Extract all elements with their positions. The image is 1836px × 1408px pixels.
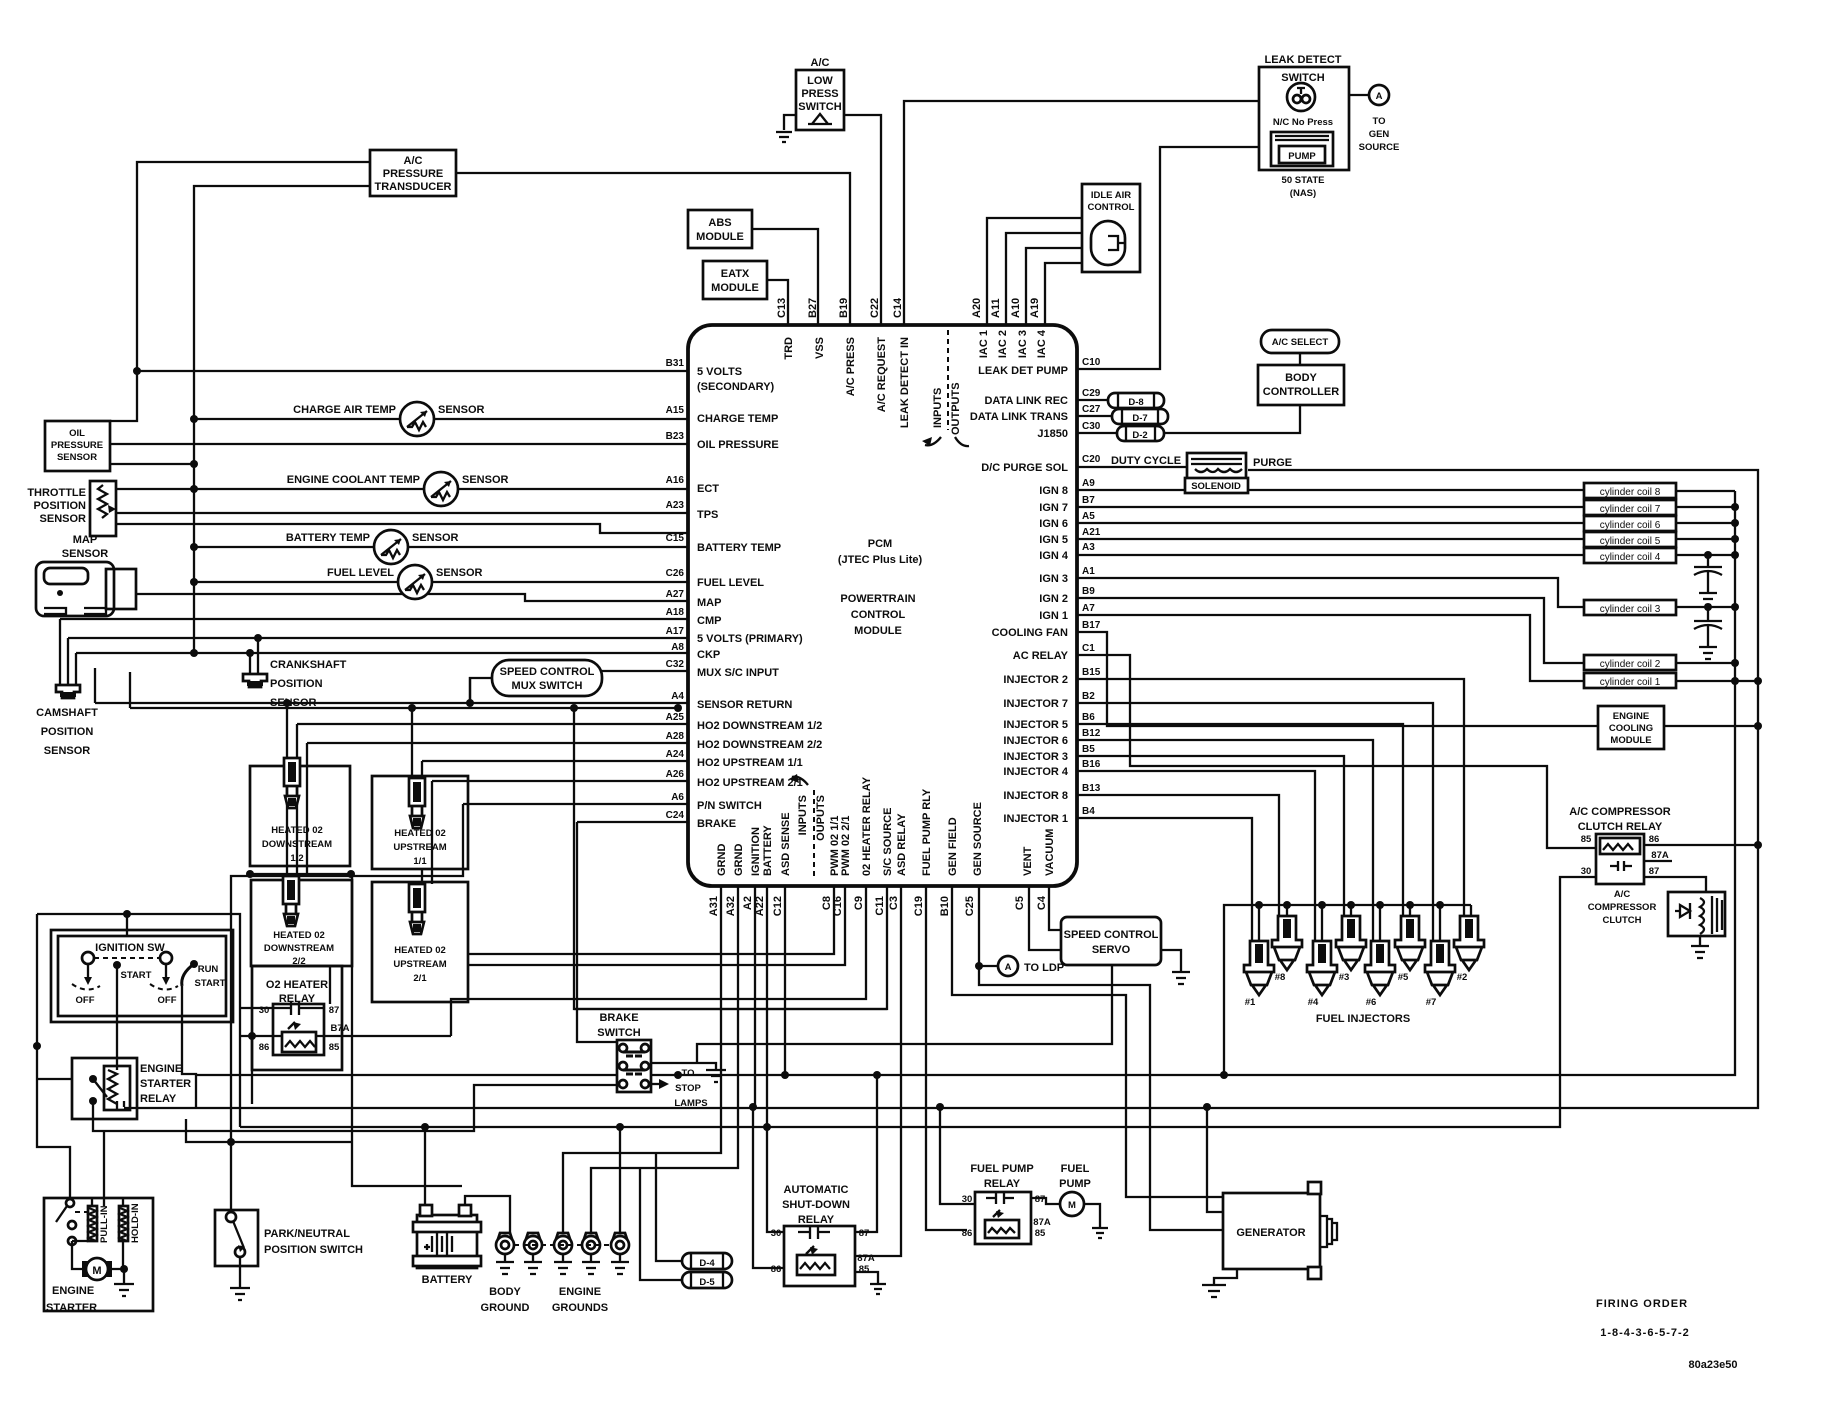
svg-text:FIRING ORDER: FIRING ORDER [1596, 1298, 1688, 1310]
svg-text:30: 30 [771, 1228, 782, 1239]
svg-text:PRESSURE: PRESSURE [51, 440, 103, 451]
svg-text:cylinder coil 5: cylinder coil 5 [1600, 536, 1661, 547]
svg-text:A31: A31 [708, 896, 720, 916]
svg-text:TRD: TRD [783, 337, 795, 360]
svg-text:ENGINE: ENGINE [559, 1286, 601, 1298]
svg-text:#4: #4 [1308, 997, 1319, 1008]
svg-text:A: A [1376, 91, 1383, 102]
svg-text:DATA LINK REC: DATA LINK REC [984, 395, 1068, 407]
svg-text:POWERTRAIN: POWERTRAIN [840, 593, 915, 605]
svg-text:87A: 87A [857, 1253, 875, 1264]
svg-text:CKP: CKP [697, 649, 720, 661]
svg-text:GEN FIELD: GEN FIELD [947, 817, 959, 876]
svg-text:SHUT-DOWN: SHUT-DOWN [782, 1199, 850, 1211]
svg-text:(SECONDARY): (SECONDARY) [697, 381, 775, 393]
svg-text:HEATED 02: HEATED 02 [271, 825, 323, 836]
svg-text:INJECTOR 2: INJECTOR 2 [1003, 674, 1068, 686]
svg-text:C5: C5 [1014, 896, 1026, 910]
svg-text:START: START [195, 978, 226, 989]
svg-text:02 HEATER RELAY: 02 HEATER RELAY [861, 776, 873, 876]
svg-text:cylinder coil 1: cylinder coil 1 [1600, 677, 1661, 688]
svg-text:C4: C4 [1036, 895, 1048, 910]
svg-text:1/2: 1/2 [290, 853, 303, 864]
svg-text:#7: #7 [1426, 997, 1437, 1008]
svg-text:85: 85 [329, 1042, 340, 1053]
svg-text:P/N SWITCH: P/N SWITCH [697, 800, 762, 812]
svg-text:LOW: LOW [807, 75, 833, 87]
svg-text:#5: #5 [1398, 972, 1409, 983]
svg-text:C25: C25 [964, 896, 976, 916]
svg-text:B23: B23 [666, 431, 685, 442]
svg-text:A/C: A/C [1614, 889, 1631, 900]
svg-text:80a23e50: 80a23e50 [1689, 1359, 1738, 1371]
svg-text:A19: A19 [1029, 298, 1041, 318]
svg-text:UPSTREAM: UPSTREAM [393, 842, 446, 853]
svg-text:A32: A32 [725, 896, 737, 916]
svg-text:CONTROL: CONTROL [851, 609, 906, 621]
svg-text:LEAK DETECT IN: LEAK DETECT IN [899, 337, 911, 428]
svg-text:A24: A24 [666, 749, 685, 760]
svg-text:PUMP: PUMP [1059, 1178, 1091, 1190]
svg-text:D-7: D-7 [1132, 413, 1147, 424]
svg-text:MUX SWITCH: MUX SWITCH [512, 680, 583, 692]
svg-text:BODY: BODY [1285, 372, 1317, 384]
svg-text:86: 86 [962, 1228, 973, 1239]
svg-text:#3: #3 [1339, 972, 1350, 983]
svg-text:IGNITION: IGNITION [750, 827, 762, 876]
svg-text:MAP: MAP [73, 534, 97, 546]
svg-text:CLUTCH: CLUTCH [1602, 915, 1641, 926]
svg-text:B7A: B7A [330, 1023, 349, 1034]
svg-text:HEATED 02: HEATED 02 [394, 945, 446, 956]
svg-text:C27: C27 [1082, 404, 1101, 415]
svg-text:cylinder coil 3: cylinder coil 3 [1600, 604, 1661, 615]
svg-text:ENGINE: ENGINE [140, 1063, 182, 1075]
svg-text:D-2: D-2 [1132, 430, 1147, 441]
svg-text:O2 HEATER: O2 HEATER [266, 979, 328, 991]
svg-text:IDLE AIR: IDLE AIR [1091, 190, 1131, 201]
svg-text:C3: C3 [888, 896, 900, 910]
svg-text:POSITION SWITCH: POSITION SWITCH [264, 1244, 363, 1256]
svg-text:SENSOR: SENSOR [462, 474, 509, 486]
svg-text:30: 30 [1581, 866, 1592, 877]
svg-text:TO: TO [1372, 116, 1385, 127]
svg-text:C9: C9 [853, 896, 865, 910]
svg-text:86: 86 [771, 1264, 782, 1275]
svg-text:INJECTOR 6: INJECTOR 6 [1003, 735, 1068, 747]
svg-text:C1: C1 [1082, 643, 1095, 654]
svg-text:FUEL LEVEL: FUEL LEVEL [697, 577, 764, 589]
svg-text:86: 86 [1649, 834, 1660, 845]
svg-text:SPEED CONTROL: SPEED CONTROL [1064, 929, 1159, 941]
svg-text:1/1: 1/1 [413, 856, 427, 867]
svg-text:INJECTOR 8: INJECTOR 8 [1003, 790, 1068, 802]
svg-text:B7: B7 [1082, 495, 1095, 506]
svg-text:GEN SOURCE: GEN SOURCE [972, 802, 984, 876]
svg-text:AC RELAY: AC RELAY [1013, 650, 1069, 662]
svg-text:LEAK DET PUMP: LEAK DET PUMP [978, 365, 1068, 377]
svg-text:IGN 5: IGN 5 [1039, 534, 1068, 546]
svg-text:UPSTREAM: UPSTREAM [393, 959, 446, 970]
svg-text:D-5: D-5 [699, 1277, 715, 1288]
svg-text:B5: B5 [1082, 744, 1095, 755]
svg-text:FUEL LEVEL: FUEL LEVEL [327, 567, 394, 579]
svg-text:N/C No Press: N/C No Press [1273, 117, 1333, 128]
svg-text:FUEL INJECTORS: FUEL INJECTORS [1316, 1013, 1410, 1025]
svg-text:cylinder coil 4: cylinder coil 4 [1600, 552, 1661, 563]
svg-text:PUMP: PUMP [1288, 151, 1316, 162]
svg-text:B10: B10 [939, 896, 951, 916]
svg-text:C22: C22 [869, 298, 881, 318]
svg-text:A27: A27 [666, 589, 685, 600]
svg-text:GEN: GEN [1369, 129, 1390, 140]
svg-text:PRESS: PRESS [801, 88, 838, 100]
svg-text:IAC 3: IAC 3 [1017, 330, 1029, 358]
svg-text:FUEL: FUEL [1061, 1163, 1090, 1175]
svg-text:86: 86 [259, 1042, 270, 1053]
svg-text:RELAY: RELAY [984, 1178, 1021, 1190]
svg-text:HO2 DOWNSTREAM 1/2: HO2 DOWNSTREAM 1/2 [697, 720, 822, 732]
svg-text:A16: A16 [666, 475, 685, 486]
svg-text:5 VOLTS (PRIMARY): 5 VOLTS (PRIMARY) [697, 633, 803, 645]
svg-text:C15: C15 [666, 533, 685, 544]
svg-text:cylinder coil 6: cylinder coil 6 [1600, 520, 1661, 531]
svg-text:SENSOR: SENSOR [62, 548, 109, 560]
svg-text:IGN 2: IGN 2 [1039, 593, 1068, 605]
svg-text:87A: 87A [1651, 850, 1669, 861]
svg-text:B31: B31 [666, 358, 685, 369]
svg-text:M: M [92, 1265, 101, 1277]
svg-text:J1850: J1850 [1037, 428, 1068, 440]
svg-text:BATTERY: BATTERY [422, 1274, 473, 1286]
svg-text:MODULE: MODULE [711, 282, 759, 294]
svg-text:CMP: CMP [697, 615, 721, 627]
svg-text:SENSOR: SENSOR [270, 697, 317, 709]
svg-text:C12: C12 [772, 896, 784, 916]
svg-text:HEATED 02: HEATED 02 [394, 828, 446, 839]
svg-text:A/C PRESS: A/C PRESS [845, 337, 857, 396]
svg-text:HEATED 02: HEATED 02 [273, 930, 325, 941]
svg-text:5 VOLTS: 5 VOLTS [697, 366, 742, 378]
svg-text:PURGE: PURGE [1253, 457, 1292, 469]
svg-text:MODULE: MODULE [1610, 735, 1651, 746]
svg-text:COOLING FAN: COOLING FAN [992, 627, 1068, 639]
svg-text:A5: A5 [1082, 511, 1095, 522]
svg-text:FUEL PUMP RLY: FUEL PUMP RLY [921, 788, 933, 876]
svg-text:ENGINE COOLANT TEMP: ENGINE COOLANT TEMP [287, 474, 420, 486]
svg-text:IAC 2: IAC 2 [997, 330, 1009, 358]
svg-text:LAMPS: LAMPS [674, 1098, 707, 1109]
svg-text:INJECTOR 5: INJECTOR 5 [1003, 719, 1068, 731]
svg-text:POSITION: POSITION [270, 678, 323, 690]
svg-text:S/C SOURCE: S/C SOURCE [882, 808, 894, 876]
svg-text:B15: B15 [1082, 667, 1101, 678]
svg-text:IAC 1: IAC 1 [978, 330, 990, 358]
svg-text:C11: C11 [874, 896, 886, 916]
svg-text:2/1: 2/1 [413, 973, 427, 984]
svg-text:IGN 3: IGN 3 [1039, 573, 1068, 585]
svg-text:DATA LINK TRANS: DATA LINK TRANS [970, 411, 1068, 423]
svg-text:87: 87 [1035, 1194, 1046, 1205]
svg-text:IGNITION SW: IGNITION SW [95, 942, 165, 954]
svg-text:#1: #1 [1245, 997, 1256, 1008]
svg-text:VACUUM: VACUUM [1044, 829, 1056, 876]
svg-text:START: START [121, 970, 152, 981]
svg-text:A21: A21 [1082, 527, 1101, 538]
svg-text:85: 85 [1581, 834, 1592, 845]
svg-text:GROUNDS: GROUNDS [552, 1302, 608, 1314]
svg-text:A/C SELECT: A/C SELECT [1272, 337, 1329, 348]
svg-text:B4: B4 [1082, 806, 1095, 817]
svg-text:D-4: D-4 [699, 1258, 715, 1269]
svg-text:RELAY: RELAY [798, 1214, 835, 1226]
svg-text:C30: C30 [1082, 421, 1101, 432]
svg-text:A4: A4 [671, 691, 684, 702]
svg-text:DOWNSTREAM: DOWNSTREAM [264, 943, 334, 954]
svg-text:AUTOMATIC: AUTOMATIC [784, 1184, 849, 1196]
svg-text:SWITCH: SWITCH [798, 101, 841, 113]
svg-text:A26: A26 [666, 769, 685, 780]
svg-text:INJECTOR 4: INJECTOR 4 [1003, 766, 1068, 778]
svg-text:cylinder coil 2: cylinder coil 2 [1600, 659, 1661, 670]
svg-text:ENGINE: ENGINE [1613, 711, 1649, 722]
svg-text:PRESSURE: PRESSURE [383, 168, 444, 180]
svg-text:C10: C10 [1082, 357, 1101, 368]
svg-text:ASD RELAY: ASD RELAY [896, 813, 908, 876]
svg-text:BRAKE: BRAKE [599, 1012, 638, 1024]
svg-text:C14: C14 [892, 297, 904, 318]
svg-text:DUTY CYCLE: DUTY CYCLE [1111, 455, 1181, 467]
svg-text:SENSOR: SENSOR [57, 452, 97, 463]
svg-text:BODY: BODY [489, 1286, 521, 1298]
svg-text:GENERATOR: GENERATOR [1236, 1227, 1305, 1239]
svg-text:POSITION: POSITION [41, 726, 94, 738]
svg-text:A20: A20 [971, 298, 983, 318]
svg-text:SENSOR: SENSOR [412, 532, 459, 544]
svg-text:IGN 8: IGN 8 [1039, 485, 1068, 497]
svg-text:A: A [1005, 962, 1012, 973]
svg-text:CRANKSHAFT: CRANKSHAFT [270, 659, 347, 671]
svg-text:B2: B2 [1082, 691, 1095, 702]
svg-text:CLUTCH RELAY: CLUTCH RELAY [1578, 821, 1663, 833]
svg-text:#8: #8 [1275, 972, 1286, 983]
svg-text:HO2 DOWNSTREAM 2/2: HO2 DOWNSTREAM 2/2 [697, 739, 822, 751]
svg-text:A8: A8 [671, 642, 684, 653]
svg-text:C24: C24 [666, 810, 685, 821]
svg-text:1-8-4-3-6-5-7-2: 1-8-4-3-6-5-7-2 [1600, 1327, 1690, 1339]
svg-text:BATTERY TEMP: BATTERY TEMP [697, 542, 781, 554]
svg-text:50 STATE: 50 STATE [1282, 175, 1325, 186]
svg-text:B16: B16 [1082, 759, 1101, 770]
svg-text:CHARGE AIR TEMP: CHARGE AIR TEMP [293, 404, 396, 416]
svg-text:ENGINE: ENGINE [52, 1285, 94, 1297]
svg-text:B13: B13 [1082, 783, 1101, 794]
svg-text:87: 87 [1649, 866, 1660, 877]
svg-text:IGN 1: IGN 1 [1039, 610, 1068, 622]
svg-text:VENT: VENT [1022, 846, 1034, 876]
svg-text:A/C REQUEST: A/C REQUEST [876, 337, 888, 412]
svg-text:PWM 02 2/1: PWM 02 2/1 [840, 815, 852, 876]
svg-text:VSS: VSS [814, 337, 826, 359]
svg-text:B19: B19 [838, 298, 850, 318]
svg-text:B9: B9 [1082, 586, 1095, 597]
svg-text:A28: A28 [666, 731, 685, 742]
svg-text:C19: C19 [913, 896, 925, 916]
svg-text:INPUTS: INPUTS [797, 795, 809, 835]
svg-text:INJECTOR 1: INJECTOR 1 [1003, 813, 1068, 825]
svg-text:THROTTLE: THROTTLE [27, 487, 86, 499]
svg-text:BATTERY TEMP: BATTERY TEMP [286, 532, 370, 544]
svg-text:30: 30 [962, 1194, 973, 1205]
svg-text:#6: #6 [1366, 997, 1377, 1008]
svg-text:HO2 UPSTREAM 2/1: HO2 UPSTREAM 2/1 [697, 777, 803, 789]
svg-text:CONTROL: CONTROL [1088, 202, 1135, 213]
svg-text:A25: A25 [666, 712, 685, 723]
svg-text:COOLING: COOLING [1609, 723, 1653, 734]
svg-text:A/C COMPRESSOR: A/C COMPRESSOR [1569, 806, 1671, 818]
svg-text:B17: B17 [1082, 620, 1101, 631]
svg-text:MODULE: MODULE [854, 625, 902, 637]
svg-text:SOURCE: SOURCE [1359, 142, 1400, 153]
svg-text:C26: C26 [666, 568, 685, 579]
svg-text:A17: A17 [666, 626, 685, 637]
svg-text:85: 85 [859, 1264, 870, 1275]
svg-text:SOLENOID: SOLENOID [1191, 481, 1241, 492]
svg-text:PARK/NEUTRAL: PARK/NEUTRAL [264, 1228, 350, 1240]
svg-text:OIL PRESSURE: OIL PRESSURE [697, 439, 779, 451]
svg-text:C29: C29 [1082, 388, 1101, 399]
svg-text:CHARGE TEMP: CHARGE TEMP [697, 413, 778, 425]
svg-text:OFF: OFF [158, 995, 177, 1006]
svg-text:GROUND: GROUND [481, 1302, 530, 1314]
svg-text:OIL: OIL [69, 428, 85, 439]
svg-text:SENSOR: SENSOR [44, 745, 91, 757]
svg-text:EATX: EATX [721, 268, 750, 280]
svg-text:A3: A3 [1082, 542, 1095, 553]
svg-text:RELAY: RELAY [140, 1093, 177, 1105]
svg-text:OUPUTS: OUPUTS [815, 795, 827, 841]
svg-text:STOP: STOP [675, 1083, 701, 1094]
svg-text:87A: 87A [1033, 1217, 1051, 1228]
svg-text:POSITION: POSITION [33, 500, 86, 512]
svg-text:#2: #2 [1457, 972, 1468, 983]
svg-text:TO: TO [681, 1068, 694, 1079]
svg-text:A/C: A/C [811, 57, 830, 69]
svg-text:LEAK DETECT: LEAK DETECT [1265, 54, 1342, 66]
svg-text:BRAKE: BRAKE [697, 818, 736, 830]
svg-text:STARTER: STARTER [140, 1078, 191, 1090]
svg-text:CAMSHAFT: CAMSHAFT [36, 707, 98, 719]
svg-text:IGN 6: IGN 6 [1039, 518, 1068, 530]
svg-text:TRANSDUCER: TRANSDUCER [375, 181, 452, 193]
svg-text:C13: C13 [776, 298, 788, 318]
svg-text:FUEL PUMP: FUEL PUMP [970, 1163, 1033, 1175]
svg-text:PULL-IN: PULL-IN [99, 1205, 110, 1243]
svg-text:OFF: OFF [76, 995, 95, 1006]
svg-text:CONTROLLER: CONTROLLER [1263, 386, 1339, 398]
svg-text:GRND: GRND [716, 844, 728, 876]
svg-text:A1: A1 [1082, 566, 1095, 577]
svg-text:COMPRESSOR: COMPRESSOR [1588, 902, 1657, 913]
svg-text:SENSOR RETURN: SENSOR RETURN [697, 699, 792, 711]
svg-text:SERVO: SERVO [1092, 944, 1131, 956]
svg-text:B6: B6 [1082, 712, 1095, 723]
svg-text:cylinder coil 7: cylinder coil 7 [1600, 504, 1661, 515]
svg-text:A15: A15 [666, 405, 685, 416]
svg-text:B12: B12 [1082, 728, 1101, 739]
svg-text:IGN 4: IGN 4 [1039, 550, 1069, 562]
svg-text:ABS: ABS [708, 217, 731, 229]
svg-text:A/C: A/C [404, 155, 423, 167]
svg-text:PCM: PCM [868, 538, 892, 550]
svg-text:cylinder coil 8: cylinder coil 8 [1600, 487, 1661, 498]
svg-text:87: 87 [859, 1228, 870, 1239]
svg-text:D/C PURGE SOL: D/C PURGE SOL [981, 462, 1068, 474]
svg-text:A23: A23 [666, 500, 685, 511]
svg-text:BATTERY: BATTERY [762, 825, 774, 876]
svg-text:MAP: MAP [697, 597, 721, 609]
svg-text:IAC 4: IAC 4 [1036, 329, 1048, 358]
svg-text:DOWNSTREAM: DOWNSTREAM [262, 839, 332, 850]
svg-text:STARTER: STARTER [46, 1302, 97, 1314]
svg-text:A10: A10 [1010, 298, 1022, 318]
svg-text:A18: A18 [666, 607, 685, 618]
svg-text:A9: A9 [1082, 478, 1095, 489]
svg-text:OUTPUTS: OUTPUTS [950, 382, 962, 435]
svg-text:SENSOR: SENSOR [436, 567, 483, 579]
svg-text:GRND: GRND [733, 844, 745, 876]
svg-text:TO LDP: TO LDP [1024, 962, 1064, 974]
svg-text:C32: C32 [666, 659, 685, 670]
svg-text:HOLD-IN: HOLD-IN [130, 1203, 141, 1243]
svg-text:87: 87 [329, 1005, 340, 1016]
svg-text:A7: A7 [1082, 603, 1095, 614]
svg-text:INPUTS: INPUTS [932, 388, 944, 428]
svg-text:A6: A6 [671, 792, 684, 803]
svg-text:IGN 7: IGN 7 [1039, 502, 1068, 514]
svg-text:A11: A11 [990, 298, 1002, 318]
svg-text:MODULE: MODULE [696, 231, 744, 243]
svg-text:C20: C20 [1082, 454, 1101, 465]
svg-text:RUN: RUN [198, 964, 219, 975]
svg-text:M: M [1068, 1200, 1076, 1211]
svg-text:ECT: ECT [697, 483, 719, 495]
svg-text:TPS: TPS [697, 509, 718, 521]
svg-text:SENSOR: SENSOR [40, 513, 87, 525]
svg-text:A2: A2 [742, 896, 754, 910]
svg-text:SENSOR: SENSOR [438, 404, 485, 416]
svg-text:(JTEC Plus Lite): (JTEC Plus Lite) [838, 554, 923, 566]
svg-text:85: 85 [1035, 1228, 1046, 1239]
svg-text:INJECTOR 3: INJECTOR 3 [1003, 751, 1068, 763]
svg-text:30: 30 [259, 1005, 270, 1016]
svg-text:D-8: D-8 [1128, 397, 1143, 408]
svg-text:MUX S/C INPUT: MUX S/C INPUT [697, 667, 779, 679]
svg-text:INJECTOR 7: INJECTOR 7 [1003, 698, 1068, 710]
svg-text:SWITCH: SWITCH [597, 1027, 640, 1039]
svg-text:SPEED CONTROL: SPEED CONTROL [500, 666, 595, 678]
svg-text:HO2 UPSTREAM 1/1: HO2 UPSTREAM 1/1 [697, 757, 803, 769]
svg-text:(NAS): (NAS) [1290, 188, 1316, 199]
svg-text:ASD SENSE: ASD SENSE [780, 812, 792, 876]
